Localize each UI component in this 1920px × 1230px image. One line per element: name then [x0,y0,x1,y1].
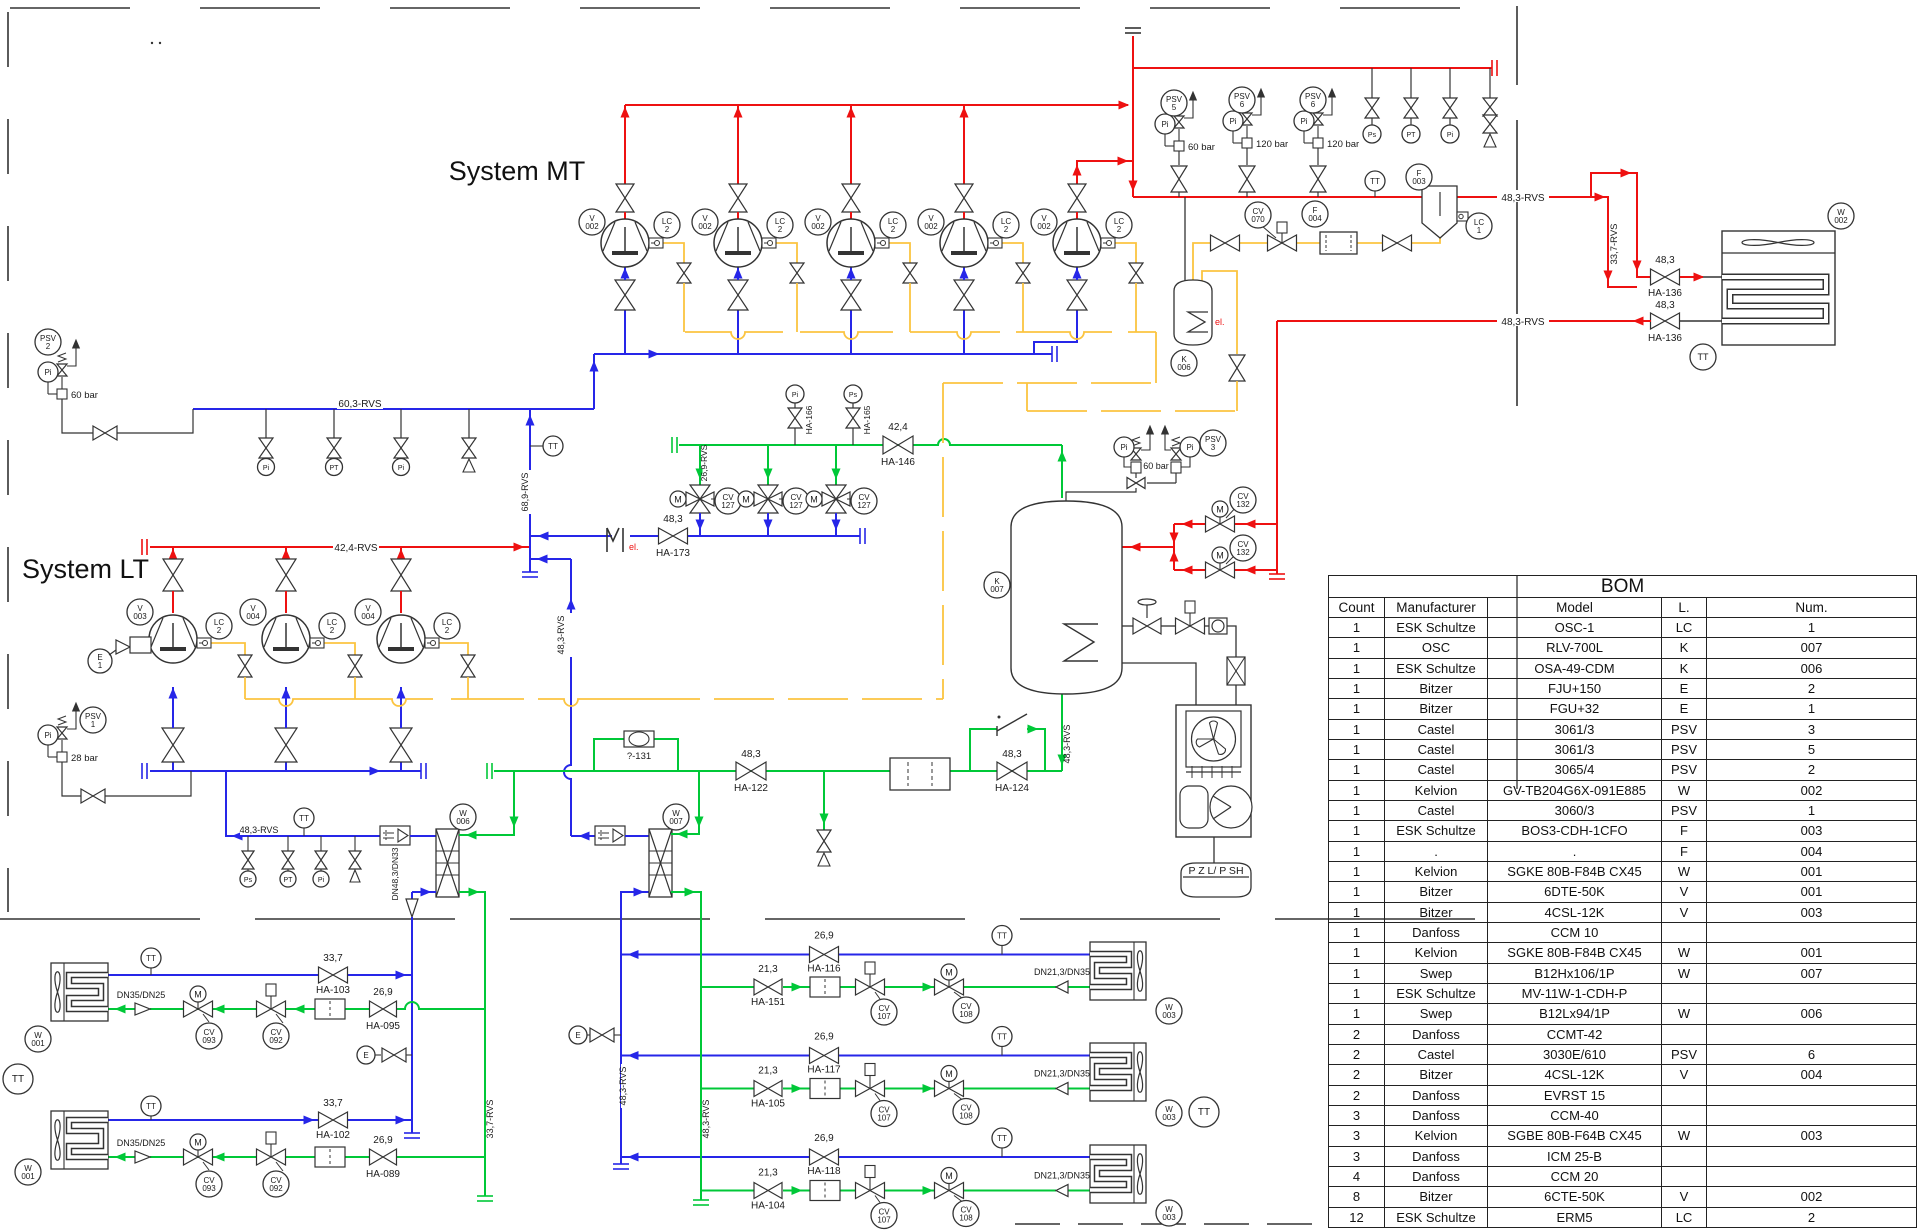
drain drop with vent [823,771,825,830]
svg-text:007: 007 [990,585,1004,594]
svg-text:093: 093 [202,1184,216,1193]
svg-text:HA-103: HA-103 [316,985,350,996]
pipe cap [1269,573,1285,575]
border bottom-right dashed [1015,1223,1330,1225]
reducer DN35/DN25 [135,1151,150,1163]
border frame bottom dashed [0,918,1516,920]
MT suction main 60,3-RVS [193,408,594,410]
instrument LC 2 [880,212,906,238]
svg-text:127: 127 [789,501,803,510]
oil separator F003 outlet line [1457,196,1591,198]
svg-text:el.: el. [629,542,639,552]
motor valve CV132 lower [1206,562,1235,578]
suction main riser [593,354,595,409]
row2 W001 liquid line 26,9 [397,1156,485,1158]
valve [1239,166,1255,192]
svg-text:6: 6 [1240,100,1245,109]
svg-text:127: 127 [857,501,871,510]
svg-text:HA-136: HA-136 [1648,333,1682,344]
svg-text:48,3-RVS: 48,3-RVS [1501,193,1545,204]
compressor V002-1 [601,219,649,267]
svg-text:TT: TT [299,814,309,823]
valve [93,426,117,440]
relief assembly PSV 2 [57,389,67,399]
instrument TT room [3,1064,33,1094]
motor valve CV 108 [935,979,964,995]
MT suction header [594,353,1052,355]
line to level switch pot [1213,837,1215,863]
LT oil valve 1 [238,655,252,677]
instrument CV 127 [783,488,809,514]
svg-text:2: 2 [778,225,783,234]
strainer [810,977,840,997]
oil level transmitter [875,238,889,248]
MT discharge header pipe [625,104,1128,106]
svg-text:Ps: Ps [1368,132,1377,139]
svg-text:60 bar: 60 bar [1143,461,1169,471]
arrow into red drop [1129,181,1137,190]
relief assembly PSV 5 on top header [1174,141,1184,151]
svg-text:Pi: Pi [792,392,799,399]
compressor V002-4 [940,219,988,267]
stray dots [151,42,153,44]
changeover motor valve CV127-1 [690,485,710,513]
solenoid bypass ?-131 [594,739,624,771]
liquid inlet to vessel K007 [1173,524,1175,570]
blue riser 48,3-RVS from W007 [564,559,571,836]
pump fan [1192,717,1236,761]
svg-text:007: 007 [669,817,683,826]
svg-text:092: 092 [269,1184,283,1193]
svg-text:5: 5 [1172,103,1177,112]
instrument drops from top relief header [1371,68,1373,99]
LT discharge valve 1 [163,559,183,591]
evaporator W003 row3 [1090,1145,1146,1203]
vent drop on suction main [468,409,470,438]
oil valve 4 [1016,263,1030,283]
svg-text:DN21,3/DN35: DN21,3/DN35 [1034,1069,1090,1079]
svg-text:DN35/DN25: DN35/DN25 [117,990,166,1000]
MT compressor 3 oil line [889,243,910,263]
condenser fan [1742,240,1814,246]
valve HA-117 [810,1048,839,1064]
evaporator W001 row2 [51,1111,108,1169]
MT compressor 1 suction riser [624,310,626,354]
solenoid valve on outlet [1161,625,1176,627]
liquid feed from vessel K007 [1061,694,1063,771]
crankcase heater E1 [88,649,112,673]
instrument W 002 [1828,203,1854,229]
svg-text:1: 1 [1477,226,1482,235]
svg-text:28 bar: 28 bar [71,753,98,764]
instrument drops on suction main [265,409,267,438]
instrument CV 132 [1230,487,1256,513]
oil link [1026,383,1028,411]
purge valve E on riser [569,1026,587,1044]
reducer DN21,3/DN35 [1056,1185,1068,1197]
svg-text:003: 003 [1162,1011,1176,1020]
svg-text:003: 003 [1412,177,1426,186]
svg-text:E: E [575,1031,580,1040]
oil valve [1383,235,1412,251]
svg-text:107: 107 [877,1114,891,1123]
line from hot gas header to K006 [1184,197,1186,281]
sight glass [1205,625,1209,627]
hot gas defrost header 42,4 [671,437,673,453]
svg-text:002: 002 [924,222,938,231]
svg-text:HA-136: HA-136 [1648,288,1682,299]
svg-text:120 bar: 120 bar [1327,139,1359,150]
condenser W002 [1722,231,1835,345]
instrument V 004 [240,599,266,625]
oil valve [1211,235,1240,251]
blue riser from middle rows to W007 [621,892,649,1164]
MT compressor 2 suction riser [737,310,739,354]
W007 suction outlet to riser [571,835,595,837]
heating element K006 [1188,312,1208,332]
oil return header dashed [943,382,1156,384]
level switch box [1457,212,1468,221]
discharge valve compressor 2 [729,184,747,212]
svg-text:48,3: 48,3 [741,749,761,760]
svg-text:M: M [810,495,818,505]
pipe cap [420,763,422,779]
LT compressor V004 [377,615,425,663]
heat exchanger W006 [436,829,459,897]
instrument LC 2 [993,212,1019,238]
oil valve at K006 [1229,355,1245,381]
svg-text:003: 003 [133,612,147,621]
svg-text:070: 070 [1251,215,1265,224]
svg-text:108: 108 [959,1214,973,1223]
instrument CV 108 [953,1201,979,1227]
strainer [810,1181,840,1201]
discharge valve compressor 3 [842,184,860,212]
LT compressor 3 oil line [439,643,468,655]
svg-text:TT: TT [1698,352,1709,362]
filter drier before W007 [595,826,625,845]
liquid drop to W006 [459,771,514,835]
svg-text:HA-095: HA-095 [366,1021,400,1032]
svg-text:HA-117: HA-117 [807,1065,841,1076]
svg-text:M: M [1216,551,1224,561]
instrument CV 092 [263,1023,289,1049]
red top relief header pipe [1133,67,1492,69]
valve HA-151 [754,979,782,995]
instrument Pi right [1181,456,1190,467]
pump impeller [1210,786,1252,828]
instrument V 002 [692,209,718,235]
MT suction valve 1 [615,280,635,310]
svg-text:Pi: Pi [1229,117,1236,126]
instrument CV 092 [263,1171,289,1197]
solenoid valve CV 107 [856,1183,885,1199]
instrument PSV 1 [80,707,106,733]
svg-text:HA-173: HA-173 [656,548,690,559]
svg-text:48,3-RVS: 48,3-RVS [1501,317,1545,328]
LT compressor 1 suction riser [172,762,174,771]
instrument W 003 [1156,1200,1182,1226]
oil valve 5 [1129,263,1143,283]
oil receiver K006 [1174,280,1212,345]
oil valve 3 [903,263,917,283]
liquid drop to W007 [671,771,699,834]
row3 W003 suction line 26,9 [621,1156,810,1158]
valve HA-118 [810,1149,839,1165]
svg-text:TT: TT [997,1134,1007,1143]
LT oil valve 3 [461,655,475,677]
instrument W 001 [15,1159,41,1185]
changeover motor valve CV127-2 [758,485,778,513]
level switch pot PZL/PSH [1181,863,1251,897]
instrument CV 132 [1230,535,1256,561]
reducer DN21,3/DN35 [1056,1083,1068,1095]
MT suction valve 2 [728,280,748,310]
svg-text:HA-116: HA-116 [807,964,841,975]
strainer [315,1147,345,1167]
svg-text:004: 004 [361,612,375,621]
svg-text:2: 2 [1004,225,1009,234]
svg-text:TT: TT [997,1033,1007,1042]
condenser coil [1722,277,1826,321]
svg-text:M: M [1216,505,1224,515]
svg-text:PT: PT [284,877,294,884]
svg-text:26,9: 26,9 [373,1135,393,1146]
MT oil manifold [685,332,783,339]
instrument W 006 [450,804,476,830]
reducer DN48,3/DN33 [406,899,418,917]
TT stub [1001,1146,1003,1157]
LT compressor 1 oil line [211,643,245,655]
instrument Pi [38,725,58,745]
valve HA-116 [810,947,839,963]
instrument K 007 [984,572,1010,598]
instrument LC 2 [319,613,345,639]
instrument Pi [38,362,58,382]
svg-text:21,3: 21,3 [758,1168,778,1179]
oil feed line K006 to separator chain [1193,243,1210,281]
instrument LC 2 [434,613,460,639]
svg-text:68,9-RVS: 68,9-RVS [520,473,530,512]
motor valve CV 108 [935,1081,964,1097]
pump coupling hatch [1186,771,1241,773]
svg-text:M: M [945,1069,953,1079]
LT compressor V004 [262,615,310,663]
TT stub [150,1113,152,1120]
svg-text:26,9: 26,9 [373,987,393,998]
svg-text:48,3: 48,3 [1655,300,1675,311]
svg-text:2: 2 [891,225,896,234]
row1 W003 suction line 26,9 [621,954,810,956]
motor oil valve CV 070 [1268,235,1297,251]
oil line from K006 [1202,271,1237,354]
svg-text:107: 107 [877,1216,891,1225]
TT stub [530,445,543,447]
compressor V002-3 [827,219,875,267]
svg-text:Pi: Pi [318,877,325,884]
heat exchanger W007 [649,829,672,897]
svg-text:HA-102: HA-102 [316,1130,350,1141]
instrument CV 107 [871,999,897,1025]
svg-text:PT: PT [1407,132,1417,139]
svg-text:1: 1 [98,661,103,670]
row2 W001 suction line 33,7 [108,1119,319,1121]
svg-text:48,3-RVS: 48,3-RVS [240,825,279,835]
valve [1171,166,1187,192]
svg-text:002: 002 [1037,222,1051,231]
heated M symbol [606,528,608,552]
LT compressor 2 discharge riser [285,547,287,559]
svg-text:33,7: 33,7 [323,953,343,964]
MT suction valve 4 [954,280,974,310]
valve HA-146 [883,436,913,454]
svg-text:Pi: Pi [1447,132,1454,139]
instrument PSV 2 [35,329,61,355]
svg-text:21,3: 21,3 [758,1066,778,1077]
svg-text:2: 2 [1117,225,1122,234]
valve HA-124 [997,762,1027,780]
svg-text:48,3-RVS: 48,3-RVS [701,1100,711,1139]
instrument CV 108 [953,1099,979,1125]
instrument stub HA-165 [852,427,854,445]
red line riser to condenser [1591,173,1651,277]
svg-text:107: 107 [877,1012,891,1021]
svg-text:HA-146: HA-146 [881,457,915,468]
pump unit MV-11W [1176,705,1251,837]
svg-text:M: M [945,1171,953,1181]
svg-text:TT: TT [146,1102,156,1111]
instrument PSV 6 [1300,87,1326,113]
check valve bypass around HA-124 [970,729,997,771]
svg-text:48,3: 48,3 [663,514,683,525]
instrument V 002 [1031,209,1057,235]
instrument TT [1690,344,1716,370]
svg-text:TT: TT [146,954,156,963]
svg-text:M: M [742,495,750,505]
K007 second outlet to pump [1122,663,1196,705]
strainer [315,999,345,1019]
svg-text:093: 093 [202,1036,216,1045]
TT stub [150,968,152,975]
row2 W003 liquid line 21,3 [701,1088,754,1090]
relief assembly PSV 1 [57,752,67,762]
oil level transmitter [988,238,1002,248]
oil valve 2 [790,263,804,283]
instrument stub HA-166 [794,427,796,445]
instrument PSV 5 [1161,90,1187,116]
pipe cap [1491,60,1493,76]
instrument V 002 [579,209,605,235]
BOM table [1328,575,1917,1228]
motor valve CV 093 [184,1149,213,1165]
svg-text:108: 108 [959,1010,973,1019]
svg-text:21,3: 21,3 [758,964,778,975]
svg-text:M: M [194,1138,202,1148]
oil level transmitter [310,638,324,648]
defrost line HA-173 [530,535,612,537]
LT discharge valve 3 [391,559,411,591]
svg-text:Ps: Ps [849,392,858,399]
TT stub [1001,944,1003,955]
row1 W001 suction line 33,7 [108,974,319,976]
svg-text:HA-124: HA-124 [995,783,1029,794]
line from PSV2 to suction main [62,399,93,433]
relief assembly PSV 6 on top header [1242,138,1252,148]
oil level transmitter [649,238,663,248]
compressor V002-3 discharge riser [850,105,852,184]
three-way relief valve [1127,478,1145,489]
row3 W003 liquid line 21,3 [701,1190,754,1192]
svg-text:2: 2 [46,342,51,351]
svg-text:HA-166: HA-166 [804,405,814,434]
K007 liquid outlet with hand valve [1122,625,1133,627]
svg-text:Pi: Pi [1300,117,1307,126]
instrument V 002 [918,209,944,235]
MT suction valve 5 [1067,280,1087,310]
svg-text:42,4: 42,4 [888,422,908,433]
line to pump filter [1227,626,1236,657]
instrument drops on evaporator return [247,836,249,852]
oil level transmitter [762,238,776,248]
instrument LC 2 [767,212,793,238]
motor valve CV 108 [935,1183,964,1199]
svg-text:M: M [945,968,953,978]
suction strainer on liquid main [890,758,950,790]
MT compressor 4 oil line [1002,243,1023,263]
valve HA-104 [754,1183,782,1199]
border frame right dashed [1516,6,1518,85]
row2 W003 suction line 26,9 [621,1055,810,1057]
svg-text:HA-151: HA-151 [751,997,785,1008]
svg-text:6: 6 [1311,100,1316,109]
svg-text:TT: TT [997,932,1007,941]
K007 relief line [1066,488,1136,501]
svg-text:?-131: ?-131 [627,751,651,762]
border frame top dashed [10,7,1516,9]
solenoid valve CV 092 [257,1149,286,1165]
svg-text:System MT: System MT [449,156,586,186]
solenoid valve CV 107 [856,1081,885,1097]
svg-text:Ps: Ps [244,877,253,884]
pipe cap [859,528,861,544]
instrument V 003 [127,599,153,625]
blue outlet from changeover valve [699,513,701,536]
solenoid valve CV 107 [856,979,885,995]
svg-text:004: 004 [246,612,260,621]
liquid main 48,3 [486,763,488,779]
upper liquid branch [1235,523,1277,525]
svg-text:Pi: Pi [398,465,405,472]
row1 W003 liquid line 21,3 [701,986,754,988]
instrument PSV 6 [1229,87,1255,113]
oil separator F003 [1422,186,1457,238]
svg-text:M: M [674,495,682,505]
line from PSV1 to LT header [62,762,81,796]
pump suction filter [1227,657,1245,685]
instrument W 003 [1156,998,1182,1024]
accumulator vessel K007 [1011,501,1122,694]
branch 33,7-RVS to condenser [1591,197,1637,287]
discharge valve compressor 5 [1068,184,1086,212]
red liquid drop to receiver valves [1276,321,1278,574]
svg-text:42,4-RVS: 42,4-RVS [334,543,378,554]
blue outlet from changeover valve [835,513,837,536]
valve HA-103 [319,967,348,983]
svg-text:48,3: 48,3 [1655,255,1675,266]
svg-text:HA-165: HA-165 [862,405,872,434]
MT compressor 5 oil line [1115,243,1136,263]
svg-text:TT: TT [1198,1107,1210,1118]
